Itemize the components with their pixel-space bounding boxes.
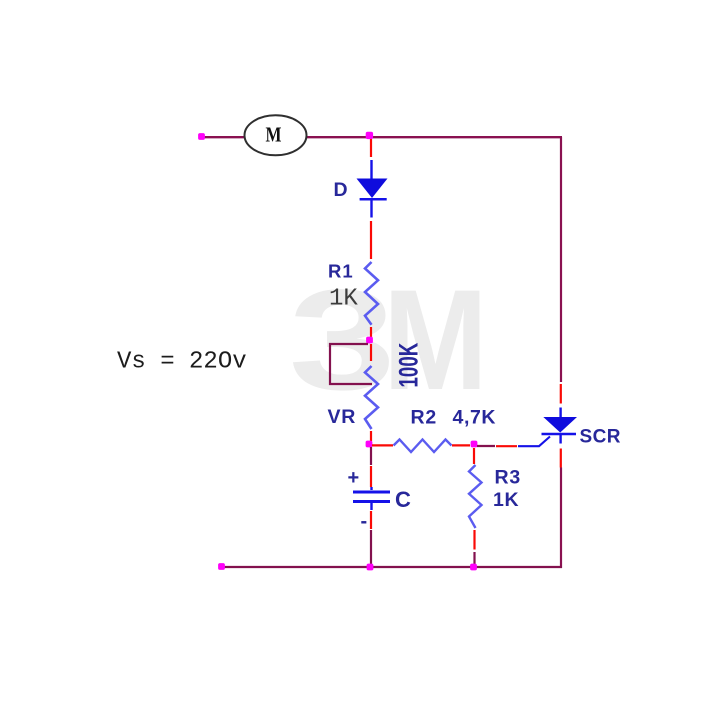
wire motor to top-right corner	[306, 136, 562, 138]
wire maroon R3 to bottom wire	[473, 552, 475, 567]
wire blue lead from diode cathode	[370, 199, 372, 218]
wire red diode to R1	[370, 221, 372, 259]
svg-text:D: D	[334, 179, 348, 201]
wire blue lead to diode anode	[370, 160, 372, 179]
wire maroon right vertical from top corner	[560, 137, 562, 382]
svg-text:Vs = 22Ov: Vs = 22Ov	[117, 349, 247, 376]
wire red junction to VR	[370, 344, 372, 361]
svg-text:SCR: SCR	[580, 426, 621, 447]
resistor R3	[469, 465, 482, 528]
wire blue gate segment	[518, 437, 550, 447]
wire blue lead SCR anode	[559, 408, 561, 418]
svg-text:3: 3	[289, 259, 396, 419]
wire maroon right vertical to bottom	[560, 468, 562, 569]
node VR bottom junction	[366, 441, 373, 448]
node endpoint bottom-left	[218, 563, 225, 570]
svg-text:+: +	[348, 467, 360, 489]
wire red node to R3	[473, 448, 475, 464]
node capacitor bottom junction	[367, 564, 374, 571]
wire red from top junction to diode	[370, 139, 372, 157]
svg-text:VR: VR	[328, 406, 357, 428]
wire red R1 to VR junction	[370, 327, 372, 338]
wire red below R3	[473, 530, 475, 550]
svg-text:R1: R1	[328, 261, 354, 282]
wire red to capacitor	[370, 466, 372, 487]
svg-text:1K: 1K	[329, 286, 358, 313]
motor M1	[245, 115, 307, 155]
svg-text:4,7K: 4,7K	[453, 407, 497, 429]
wire blue capacitor top lead	[370, 487, 372, 490]
svg-text:100K: 100K	[393, 342, 423, 387]
resistor R1	[365, 262, 378, 325]
capacitor C	[353, 492, 390, 502]
svg-text:R3: R3	[495, 467, 522, 489]
svg-text:C: C	[395, 487, 411, 512]
node R3 bottom junction	[470, 564, 477, 571]
wire red dashed below SCR	[560, 449, 562, 468]
svg-text:M: M	[266, 122, 282, 146]
wire red dashed above SCR	[560, 384, 562, 404]
wire red below capacitor	[370, 511, 372, 529]
svg-text:-: -	[361, 511, 368, 533]
wire maroon below VR node	[370, 447, 372, 465]
wire blue capacitor bottom lead	[370, 503, 372, 510]
resistor R2	[394, 440, 452, 453]
bottom wire	[221, 566, 562, 568]
node VR wiper junction	[366, 337, 373, 344]
node R2/R3/gate junction	[471, 441, 478, 448]
thyristor SCR	[542, 417, 578, 444]
svg-text:M: M	[383, 259, 488, 419]
node endpoint top-left	[198, 133, 205, 140]
svg-text:R2: R2	[411, 407, 438, 429]
wire red gate segment	[496, 445, 517, 447]
wire red R2 to node	[452, 444, 470, 446]
wire red VR to node	[370, 431, 372, 441]
wire maroon to bottom wire	[370, 530, 372, 568]
wire red node to R2	[372, 444, 393, 446]
VR wiper hook wire	[330, 344, 372, 384]
svg-text:1K: 1K	[493, 489, 519, 511]
variable resistor VR	[365, 366, 378, 429]
diode D	[357, 179, 388, 200]
node junction top (anode of D)	[366, 132, 373, 139]
wire maroon gate segment	[477, 445, 495, 447]
wire top-left to motor	[201, 136, 246, 138]
